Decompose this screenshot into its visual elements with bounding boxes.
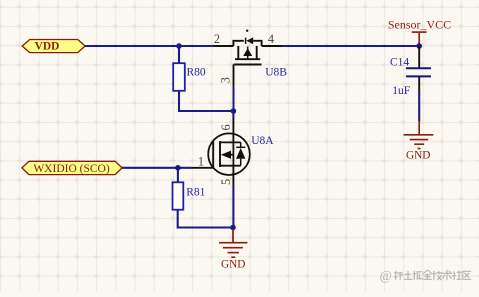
inner verticals and channel [235, 46, 260, 59]
svg-text:VDD: VDD [35, 40, 60, 52]
port VDD [22, 40, 85, 53]
source vertical [232, 142, 234, 165]
junction U8A source / R81 / GND [230, 225, 236, 231]
port WXIDIO (SCO) [22, 161, 122, 175]
svg-text:U8B: U8B [265, 66, 287, 78]
svg-text:GND: GND [406, 149, 430, 161]
capacitor C14 [390, 46, 431, 97]
wire R81 to GND junction [178, 210, 233, 228]
ground GND bottom [219, 229, 247, 271]
outer bracket with body diode [233, 41, 261, 46]
svg-text:2: 2 [214, 32, 220, 46]
channel bar [219, 141, 221, 167]
junction Sensor_VCC / C14 [416, 43, 422, 49]
bulk arrow [247, 47, 249, 60]
origin dot [246, 30, 248, 32]
wire U8B pin 4 to Sensor_VCC junction [282, 45, 420, 47]
bulk stub with arrow [226, 154, 233, 156]
pin 2 [214, 45, 234, 47]
gate plate [234, 64, 262, 66]
body diode [240, 142, 242, 165]
wire junction to R81 [177, 168, 179, 183]
svg-text:4: 4 [268, 32, 274, 46]
wire R80 to U8B pin3 junction [179, 91, 233, 111]
junction R80/pin3/pin6 [231, 108, 237, 114]
gate bar [212, 142, 214, 169]
pin 1 (gate) [192, 167, 214, 169]
power port Sensor_VCC [388, 18, 451, 44]
svg-text:@: @ [380, 268, 392, 283]
pin 6 (drain) [232, 118, 234, 142]
svg-text:WXIDIO (SCO): WXIDIO (SCO) [33, 163, 110, 175]
wire VDD port to U8B pin 2 [85, 45, 213, 47]
wire junction to R80 [178, 46, 180, 63]
junction VDD/R80 [176, 43, 182, 49]
wire WXIDIO port to U8A gate [122, 167, 192, 169]
pin 3 [233, 65, 235, 87]
transistor U8A (N-MOSFET, dual pkg A half) [192, 118, 274, 186]
resistor R81 [173, 182, 206, 209]
svg-text:1: 1 [198, 154, 204, 168]
watermark [380, 268, 471, 283]
svg-text:5: 5 [219, 179, 233, 185]
svg-text:C14: C14 [390, 56, 409, 68]
svg-text:Sensor_VCC: Sensor_VCC [388, 18, 451, 32]
ground GND right [404, 121, 434, 161]
svg-text:U8A: U8A [251, 135, 274, 147]
junction WXIDIO/R81 [175, 165, 181, 171]
resistor R80 [173, 63, 206, 91]
drain stub [220, 141, 241, 143]
svg-text:R80: R80 [187, 66, 206, 78]
svg-text:1uF: 1uF [392, 85, 410, 97]
svg-text:GND: GND [221, 259, 245, 271]
source stub [220, 165, 241, 167]
pin 4 [262, 45, 282, 47]
wire C14 to GND right [418, 90, 420, 121]
svg-text:R81: R81 [186, 187, 205, 199]
svg-text:3: 3 [219, 77, 233, 83]
wire pin5 to GND junction [232, 186, 234, 228]
pin 5 (source) [232, 166, 234, 186]
svg-text:6: 6 [219, 124, 233, 130]
transistor U8B (P-MOSFET, dual pkg B half) [214, 30, 288, 112]
wire pin6 to junction above [232, 111, 234, 118]
